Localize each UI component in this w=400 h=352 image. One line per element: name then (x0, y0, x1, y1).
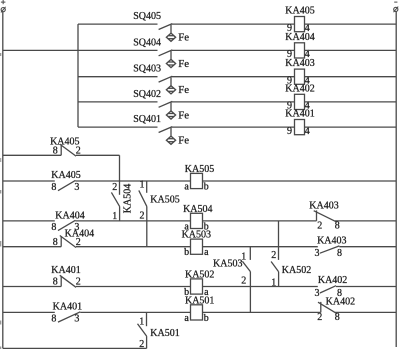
svg-text:a: a (184, 313, 189, 324)
NO contact KA401 8-3 (51, 301, 82, 324)
left page-edge mark 2 (0, 190, 2, 194)
terminal + (positive supply) (1, 0, 6, 12)
svg-text:8: 8 (53, 146, 58, 157)
relay coil KA505 (184, 164, 214, 192)
svg-text:SQ402: SQ402 (133, 89, 161, 100)
svg-text:1: 1 (139, 316, 144, 327)
ground Fe (SQ402) (166, 102, 189, 122)
svg-text:2: 2 (241, 276, 246, 287)
svg-text:8: 8 (51, 182, 56, 193)
limit switch SQ405 (133, 11, 172, 29)
svg-text:KA504: KA504 (122, 184, 133, 213)
ground Fe (SQ403) (166, 77, 189, 97)
svg-text:2: 2 (112, 182, 117, 193)
NO contact KA504 (vertical) pins 2-1 (111, 155, 133, 222)
left page-edge mark 1 (0, 53, 2, 56)
svg-text:Fe: Fe (178, 135, 189, 147)
svg-text:SQ405: SQ405 (133, 11, 161, 22)
svg-text:8: 8 (335, 312, 340, 323)
wire rung 6 left segment (3, 154, 61, 156)
svg-text:3: 3 (315, 248, 320, 259)
svg-text:2: 2 (140, 210, 145, 221)
svg-text:a: a (204, 247, 209, 258)
relay coil KA404 (285, 32, 314, 60)
wire rung 11 middle segment (80, 311, 190, 313)
wire rung 10 middle segment (76, 286, 191, 288)
wire rung 2 left segment (3, 49, 158, 51)
svg-text:KA403: KA403 (317, 235, 346, 246)
ground Fe (SQ404) (166, 50, 189, 70)
svg-text:2: 2 (317, 221, 322, 232)
NC contact KA405 8-2 (50, 136, 81, 156)
svg-text:3: 3 (315, 288, 320, 299)
svg-text:8: 8 (51, 314, 56, 325)
wire rung 9 right segment (339, 246, 396, 248)
svg-text:Fe: Fe (178, 32, 189, 44)
NC contact KA402 2-8 (317, 296, 355, 323)
wire rung 1 right segment (305, 23, 397, 25)
relay coil KA402 (285, 83, 314, 111)
ground Fe (SQ405) (166, 24, 189, 43)
wire rung 3 right segment (305, 76, 397, 78)
wire rung 11 middle-right segment (203, 311, 321, 313)
limit switch SQ402 (133, 89, 172, 107)
svg-text:KA402: KA402 (285, 83, 314, 94)
svg-text:1: 1 (140, 179, 145, 190)
relay coil KA502 (184, 270, 214, 298)
NO contact KA501 (vertical) pins 1-2 (138, 312, 180, 350)
svg-text:b: b (204, 181, 209, 192)
svg-text:3: 3 (74, 182, 79, 193)
svg-text:KA401: KA401 (51, 265, 80, 276)
ground Fe (SQ401) (166, 127, 189, 147)
svg-text:8: 8 (51, 222, 56, 233)
wire rung 9 left segment (3, 246, 61, 248)
svg-text:9: 9 (287, 126, 292, 137)
svg-text:Fe: Fe (178, 58, 189, 70)
wire rung 4 right segment (305, 101, 397, 103)
wire rung 8 middle-right segment (203, 220, 317, 222)
limit switch SQ403 (133, 64, 172, 82)
svg-text:KA403: KA403 (285, 58, 314, 69)
wire rung 10 middle-right segment (203, 286, 318, 288)
relay coil KA504 (183, 204, 212, 232)
svg-text:2: 2 (271, 250, 276, 261)
NO contact KA503 (vertical) pins 1-2 (213, 247, 250, 313)
svg-text:KA401: KA401 (53, 301, 82, 312)
wire rung 10 right segment (336, 286, 396, 288)
wire rung 4 middle segment (172, 101, 295, 103)
relay coil KA503 (182, 230, 211, 258)
NO contact KA403 3-8 (315, 235, 347, 259)
wire rung 7 middle segment (75, 180, 190, 182)
svg-text:KA402: KA402 (326, 296, 355, 307)
svg-text:KA501: KA501 (150, 328, 179, 339)
NO contact KA502 (vertical) pins 2-1 (271, 221, 311, 288)
left page-edge mark 5 (0, 347, 2, 350)
wire rung 1 left segment (78, 23, 158, 25)
svg-text:KA403: KA403 (309, 201, 338, 212)
wire rung 2 right segment (305, 49, 397, 51)
relay coil KA501 (184, 295, 214, 323)
svg-text:b: b (204, 313, 209, 324)
wire rung 10 left segment (3, 286, 61, 288)
svg-text:KA404: KA404 (55, 211, 84, 222)
left page-edge mark 1b (0, 158, 2, 162)
wire rung 5 middle segment (172, 126, 295, 128)
relay coil KA401 (285, 109, 314, 137)
wire rung 2 middle segment (172, 49, 295, 51)
svg-text:KA405: KA405 (51, 170, 80, 181)
NO contact KA505 (vertical) pins 1-2 (139, 179, 180, 246)
svg-text:KA405: KA405 (285, 6, 314, 17)
relay coil KA403 (285, 58, 314, 86)
wire bottom return segment (3, 347, 147, 349)
relay coil KA405 (285, 6, 314, 34)
NO contact KA402 3-8 (315, 275, 348, 299)
wire rung 11 right segment (335, 311, 396, 313)
svg-text:KA402: KA402 (318, 275, 347, 286)
wire rung 4 left segment (78, 101, 158, 103)
svg-text:8: 8 (337, 248, 342, 259)
wire rung 3 middle segment (172, 76, 295, 78)
wire rung 1 middle segment (172, 23, 295, 25)
wire rung 11 left segment (3, 311, 55, 313)
svg-text:SQ403: SQ403 (133, 64, 161, 75)
SQ branch bus wire (77, 24, 79, 127)
svg-text:Fe: Fe (178, 84, 189, 96)
svg-text:3: 3 (74, 314, 79, 325)
svg-text:8: 8 (53, 277, 58, 288)
svg-text:KA404: KA404 (285, 32, 314, 43)
svg-text:KA505: KA505 (150, 195, 179, 206)
wire rung 5 left segment (78, 126, 158, 128)
svg-text:b: b (184, 247, 189, 258)
NC contact KA404 8-2 (53, 229, 94, 248)
wire rung 7 right segment (203, 180, 397, 182)
svg-text:8: 8 (335, 221, 340, 232)
svg-text:a: a (184, 181, 189, 192)
wire rung 7 left segment (3, 180, 55, 182)
terminal - (negative supply) (394, 2, 399, 12)
svg-text:2: 2 (317, 312, 322, 323)
limit switch SQ404 (133, 37, 172, 55)
limit switch SQ401 (133, 114, 172, 132)
left page-edge mark 4 (0, 321, 2, 325)
svg-text:Fe: Fe (178, 109, 189, 121)
wire rung 5 right segment (305, 126, 397, 128)
svg-text:KA502: KA502 (282, 265, 311, 276)
right bus wire (-) (395, 12, 397, 347)
svg-text:KA503: KA503 (213, 258, 242, 269)
wire rung 8 left segment (3, 220, 55, 222)
wire rung 3 left segment (78, 76, 158, 78)
left bus wire (+) (2, 12, 4, 349)
left page-edge mark 3 (0, 241, 2, 247)
svg-text:KA401: KA401 (285, 109, 314, 120)
svg-text:8: 8 (53, 237, 58, 248)
wire rung 8 right segment (335, 220, 396, 222)
wire rung 9 middle segment (76, 246, 191, 248)
NO contact KA405 8-3 (51, 170, 80, 193)
NC contact KA401 8-2 (51, 265, 81, 288)
wire rung 9 middle-right segment (203, 246, 318, 248)
svg-text:SQ401: SQ401 (133, 114, 161, 125)
NC contact KA403 2-8 (309, 201, 339, 232)
svg-text:SQ404: SQ404 (133, 37, 161, 48)
wire rung 8 middle segment (75, 220, 190, 222)
NO contact KA404 8-3 (51, 211, 84, 234)
wire rung 6 right segment (76, 154, 120, 156)
